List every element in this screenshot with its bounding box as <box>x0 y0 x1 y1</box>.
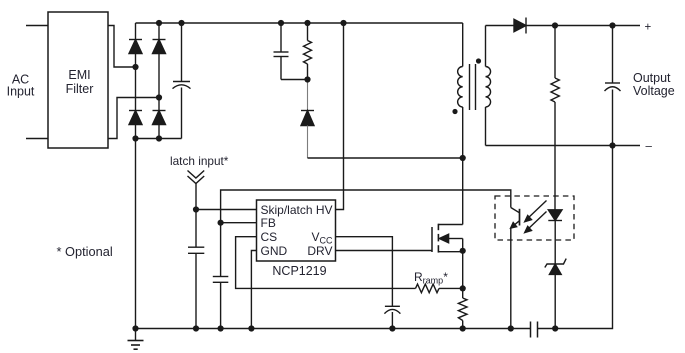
diode bridge D3 bottom-left <box>129 111 142 125</box>
transformer secondary phase dot <box>476 58 481 63</box>
transformer T1 primary winding <box>458 23 463 225</box>
node bulk rail / snubber cap <box>278 20 284 26</box>
node drain clamp join <box>460 155 466 161</box>
diode output rectifier <box>514 18 526 34</box>
wire secondary minus rail <box>486 145 641 147</box>
node bridge bottom left <box>132 135 138 141</box>
svg-text:* Optional: * Optional <box>57 244 113 259</box>
optocoupler phototransistor <box>511 208 520 329</box>
capacitor Y1 primary-secondary <box>531 322 538 338</box>
node bulk rail / bridge right leg <box>156 20 162 26</box>
node secondary rail / load res <box>552 22 558 28</box>
svg-text:EMI: EMI <box>68 68 90 82</box>
node CS sense <box>460 285 466 291</box>
svg-text:–: – <box>646 141 653 153</box>
capacitor bulk (polarized) <box>173 23 191 139</box>
wire snubber diode anode down <box>307 126 309 159</box>
node ground main <box>132 325 138 331</box>
svg-text:+: + <box>645 22 652 34</box>
wire bridge left leg <box>135 23 137 139</box>
optocoupler light arrow 1 <box>525 201 547 222</box>
capacitor output (polarized) <box>605 26 621 146</box>
resistor Rramp <box>416 284 463 293</box>
node AC1 bridge left <box>132 64 138 70</box>
node minus rail / out cap <box>609 142 615 148</box>
wire CS pin <box>236 237 416 289</box>
node AC2 bridge right <box>156 94 162 100</box>
wire source to sense <box>462 252 464 298</box>
NCP1219 box U1 <box>257 200 336 261</box>
node FB <box>218 220 224 226</box>
svg-text:NCP1219: NCP1219 <box>272 264 326 278</box>
label Output Voltage <box>633 71 675 98</box>
wire bulk rail top <box>136 22 463 24</box>
svg-text:Skip/latch: Skip/latch <box>261 203 313 217</box>
svg-text:latch input*: latch input* <box>170 154 229 168</box>
optocoupler dashed box <box>495 196 574 240</box>
capacitor latch <box>188 247 204 328</box>
capacitor FB <box>213 223 229 329</box>
wire secondary top rail <box>486 25 641 27</box>
wire primary ground rail <box>136 328 531 330</box>
diode clamp snubber <box>301 111 314 126</box>
node ground VCC cap <box>389 325 395 331</box>
wire latch stem <box>195 184 197 248</box>
node ground sense res <box>460 325 466 331</box>
node bridge bottom right <box>156 135 162 141</box>
svg-text:FB: FB <box>261 216 276 230</box>
node bulk rail / snubber res <box>304 20 310 26</box>
wire left leg to primary ground <box>135 139 137 329</box>
wire snubber to drain node <box>308 157 463 159</box>
wire AC input bottom <box>26 138 48 140</box>
latch input chevron <box>188 171 205 184</box>
LED optocoupler <box>548 210 562 264</box>
node ground opto emitter <box>508 325 514 331</box>
wire bridge right leg <box>158 23 160 139</box>
wire FB pin <box>221 222 257 224</box>
node ground GND pin <box>248 325 254 331</box>
node secondary ground zener <box>552 325 558 331</box>
node MOSFET source <box>460 248 466 254</box>
wire VCC pin <box>336 237 393 307</box>
svg-text:DRV: DRV <box>307 244 332 258</box>
wire EMI to bridge bottom <box>108 98 159 139</box>
diode bridge D4 bottom-right <box>153 111 166 125</box>
node ground latch cap <box>193 325 199 331</box>
svg-text:Filter: Filter <box>66 82 94 96</box>
resistor load <box>551 26 559 210</box>
node bulk rail / bulk cap <box>178 20 184 26</box>
node ground FB cap <box>218 325 224 331</box>
EMI filter box <box>48 12 108 148</box>
optocoupler light arrow 2 <box>525 212 547 233</box>
wire bridge bottom rail <box>136 138 182 140</box>
node bulk rail / HV riser <box>340 20 346 26</box>
wire AC input top <box>26 25 48 27</box>
transformer primary phase dot <box>452 109 457 114</box>
svg-text:CS: CS <box>261 230 278 244</box>
node latch <box>193 206 199 212</box>
diode bridge D1 top-left <box>129 40 142 54</box>
zener diode <box>545 259 566 329</box>
wire HV riser <box>336 23 344 210</box>
svg-text:Rramp*: Rramp* <box>414 270 448 286</box>
resistor clamp snubber <box>304 23 312 80</box>
label AC Input <box>7 73 35 99</box>
diode bridge D2 top-right <box>153 40 166 54</box>
svg-text:GND: GND <box>261 244 288 258</box>
svg-text:Input: Input <box>7 84 35 98</box>
wire GND pin <box>251 251 256 329</box>
svg-text:Voltage: Voltage <box>633 84 675 98</box>
wire EMI to bridge top <box>108 26 136 68</box>
wire snubber to drain (thin lead) <box>307 80 309 111</box>
wire skip/latch pin <box>196 209 257 211</box>
capacitor clamp snubber <box>274 23 308 80</box>
svg-text:HV: HV <box>316 203 333 217</box>
node snubber RC join <box>304 76 310 82</box>
transformer T1 secondary winding <box>486 26 491 146</box>
wire secondary ground riser <box>538 146 613 329</box>
label EMI Filter <box>66 68 94 96</box>
wire FB riser to opto <box>221 190 511 223</box>
node secondary rail / out cap <box>609 22 615 28</box>
capacitor VCC (polarized) <box>384 306 400 328</box>
transformer T1 core <box>470 64 476 110</box>
wire DRV pin to gate <box>336 250 433 252</box>
transistor Q1 MOSFET <box>432 224 463 253</box>
resistor sense <box>458 298 467 329</box>
ground symbol <box>128 329 144 350</box>
